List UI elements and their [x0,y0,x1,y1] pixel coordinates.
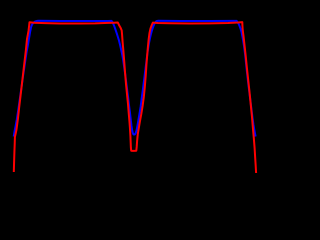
red curve [14,22,256,173]
blue curve [14,21,256,137]
